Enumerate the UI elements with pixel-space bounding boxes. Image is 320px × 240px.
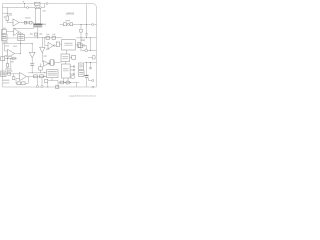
label above J3 wire — [6, 56, 13, 57]
capacitor C14 — [80, 29, 83, 32]
wire small to DAC — [60, 43, 62, 45]
wire bottom row IC — [59, 82, 80, 84]
label DAC text — [64, 42, 72, 45]
wire right col verticals — [81, 25, 87, 38]
block mic bias — [2, 35, 8, 41]
connector block J4 — [1, 71, 6, 77]
label above R7 — [46, 34, 49, 35]
wire right row3b — [88, 57, 92, 59]
wire drop D — [7, 59, 9, 64]
wire SW2 — [60, 23, 79, 25]
switch SW1 circle — [27, 22, 29, 24]
capacitor C9 — [12, 77, 15, 80]
wire cap right vertical — [86, 63, 88, 76]
resistor R10 — [40, 75, 44, 78]
resistor on bottom rail — [56, 86, 59, 89]
label block text — [79, 65, 82, 66]
arrow tick feedback — [14, 28, 15, 29]
node H — [64, 82, 65, 83]
resistor R11 — [39, 67, 43, 70]
wire R1 to opamp — [7, 21, 13, 23]
small box right mid — [79, 44, 83, 48]
resistor R6 feedback — [22, 82, 26, 85]
label block2 text — [79, 72, 83, 73]
wire U3b out — [31, 58, 33, 64]
node K1 — [81, 37, 82, 38]
capacitor C10 on wire — [8, 72, 11, 75]
wire battery to rail — [37, 27, 39, 38]
wire bias to ADC — [7, 37, 18, 39]
wire crystal to DSP — [55, 62, 61, 64]
amp triangle down U3b left — [29, 52, 35, 58]
wire to switch circle — [81, 46, 87, 51]
polarity plus top — [23, 1, 25, 3]
block right low — [79, 71, 85, 77]
wire right col low — [90, 63, 92, 68]
wire down-triangle chain right — [41, 38, 43, 47]
label C2 — [43, 10, 46, 11]
node U3b in — [32, 43, 33, 44]
node E — [10, 58, 11, 59]
block OSC text box — [47, 70, 59, 78]
node J — [86, 24, 87, 25]
wire switch to loop — [16, 23, 34, 29]
op-amp U2B — [20, 72, 27, 80]
wire J4 to opamp E — [6, 74, 20, 79]
switch circle right of DAC — [83, 45, 85, 47]
border frame — [3, 4, 97, 88]
terminal J-VDD circle — [27, 7, 29, 9]
node B2 — [20, 53, 21, 54]
buffer U4 with bubble — [44, 61, 49, 67]
pin stubs right of speaker amp — [70, 67, 73, 75]
node L2 — [86, 62, 87, 63]
wire J2 to opamp B — [7, 31, 14, 33]
bubble U5 out — [54, 45, 56, 47]
capacitor C12 — [45, 79, 48, 83]
label right of cap — [39, 33, 42, 35]
wire C15 down — [86, 78, 88, 87]
resistor R8 on mid rail — [52, 36, 56, 39]
node D — [7, 58, 8, 59]
block DAC — [62, 40, 76, 51]
battery cell body — [36, 8, 41, 23]
node G — [44, 72, 45, 73]
connector circle right row3 — [85, 49, 88, 52]
wire center low row — [28, 72, 47, 74]
label above J4 wire — [5, 68, 12, 69]
label above J2 — [2, 28, 6, 29]
wire opamp C input — [5, 44, 8, 56]
wire right row4 — [84, 62, 97, 64]
wire U5 out — [55, 45, 56, 47]
label near U4 — [43, 55, 46, 56]
block flying cap — [72, 55, 76, 59]
block charge pump — [61, 54, 70, 62]
node U5in — [44, 37, 45, 38]
wire U1A out — [19, 22, 27, 24]
node junction top rail — [24, 3, 25, 4]
connector block J2 — [2, 30, 7, 34]
amp triangle down U3 — [40, 47, 45, 53]
block right of DAC — [78, 43, 81, 48]
label above U2A — [13, 46, 17, 47]
capacitor C15 polarized — [85, 74, 89, 76]
block interface small — [56, 42, 60, 46]
op-amp U2A — [8, 49, 15, 57]
terminal circle bottom right — [92, 80, 94, 82]
node F — [44, 76, 45, 77]
op-amp U1A — [13, 19, 19, 26]
wire J3 row — [5, 58, 17, 60]
block ADC — [18, 35, 25, 41]
label OSC rows — [48, 70, 57, 73]
wire right verticals — [81, 38, 91, 51]
node B — [20, 43, 21, 44]
resistor R7 on mid rail — [46, 36, 50, 39]
wire U3 out — [42, 53, 43, 62]
switch SW1 contact box right — [29, 21, 32, 24]
battery BT1 — [34, 24, 43, 26]
wire DAC down — [66, 50, 68, 54]
polarity plus mark — [4, 16, 6, 18]
block speaker amp — [62, 64, 71, 78]
wire bottom rail components — [92, 86, 94, 88]
node A — [7, 13, 8, 14]
label below row2 — [81, 39, 86, 40]
label ADC text — [18, 36, 23, 37]
wire DAC right — [75, 44, 77, 46]
label rail left — [3, 41, 8, 42]
wire right row3 — [81, 50, 97, 52]
wire right row2 — [76, 37, 97, 39]
wire R11 — [40, 64, 42, 73]
amp triangle U5 — [48, 42, 54, 49]
wire U5 input — [45, 38, 48, 46]
switch SW1 contact box left — [24, 21, 27, 24]
capacitor C6 plates — [30, 64, 34, 66]
op-amp U1B — [14, 28, 20, 35]
wire center bottom row — [33, 75, 47, 77]
resistor R5 feedback — [17, 82, 21, 85]
capacitor C5 — [34, 33, 37, 36]
node K3 — [90, 50, 91, 51]
node L — [90, 62, 91, 63]
wire spk amp bottom — [64, 78, 68, 83]
battery terminal circles — [35, 7, 37, 9]
capacitor C16 plates — [85, 34, 87, 35]
label above SW2 — [66, 20, 71, 21]
wire to terminal — [89, 78, 92, 81]
label speaker amp text — [63, 67, 69, 70]
label charge pump text — [62, 55, 68, 58]
label near U3 — [46, 49, 49, 50]
label J4 text — [2, 73, 6, 74]
wire left input row A — [3, 8, 13, 17]
svg-text:LM4930: LM4930 — [66, 13, 75, 15]
node K2 — [90, 37, 91, 38]
wire right row1 — [78, 24, 97, 26]
resistor R3 — [6, 64, 8, 68]
node M — [47, 87, 48, 88]
resistor R13 — [60, 81, 63, 84]
node J2 — [81, 24, 82, 25]
wire drops to jack — [38, 78, 43, 86]
crystal Y1 — [49, 60, 54, 65]
wire right top vertical — [86, 4, 88, 25]
wire C6 down — [31, 65, 33, 72]
capacitor C8 feedback — [12, 57, 15, 59]
wire cp down — [65, 62, 67, 65]
label above ADC — [18, 33, 23, 34]
label C1 — [9, 14, 12, 15]
svg-text:Copyright National Semiconduct: Copyright National Semiconductor — [69, 94, 97, 97]
wire VDD rail top-left — [3, 4, 45, 8]
wire U3b top — [31, 44, 33, 53]
wire U2A out — [15, 53, 21, 55]
wire mid rail — [25, 37, 63, 39]
block right mid-low — [79, 63, 84, 70]
terminal circle top — [46, 3, 48, 5]
label mic bias text — [2, 36, 6, 37]
node junction mid rail — [37, 37, 38, 38]
label above R8 — [52, 34, 55, 35]
jack pin circles — [36, 85, 38, 87]
wire U2B out — [27, 76, 34, 78]
label mid-left — [10, 61, 14, 62]
node I — [70, 82, 71, 83]
connector block J3 — [1, 57, 5, 61]
node U3in — [42, 37, 43, 38]
resistor R14 — [66, 81, 69, 84]
pushbutton SW2 — [64, 23, 67, 26]
node K — [86, 37, 87, 38]
wire C9 — [13, 74, 15, 77]
capacitor on border — [92, 56, 95, 59]
resistor R9 — [34, 75, 38, 78]
small box above right — [71, 76, 74, 78]
node C6 — [32, 72, 33, 73]
wire charge pump right — [70, 56, 72, 58]
wire R3 down — [7, 67, 9, 73]
label bottom-left — [2, 80, 10, 81]
capacitor C17 plates — [89, 67, 91, 68]
wire drop to ground rail — [76, 83, 78, 88]
ferrite bead FB1 on top line — [35, 2, 41, 5]
wire rail left mid — [3, 43, 21, 45]
wire feedback loop U2B — [16, 77, 29, 84]
resistor R1 — [6, 16, 9, 21]
wire U1B out — [19, 32, 21, 54]
wire drop E — [10, 59, 12, 71]
wire OSC down — [48, 78, 58, 87]
label battery — [43, 24, 46, 26]
label above SW1 — [25, 17, 31, 18]
wire to center — [21, 43, 33, 45]
label CS — [30, 33, 33, 35]
terminal circle right row1 — [92, 24, 94, 26]
